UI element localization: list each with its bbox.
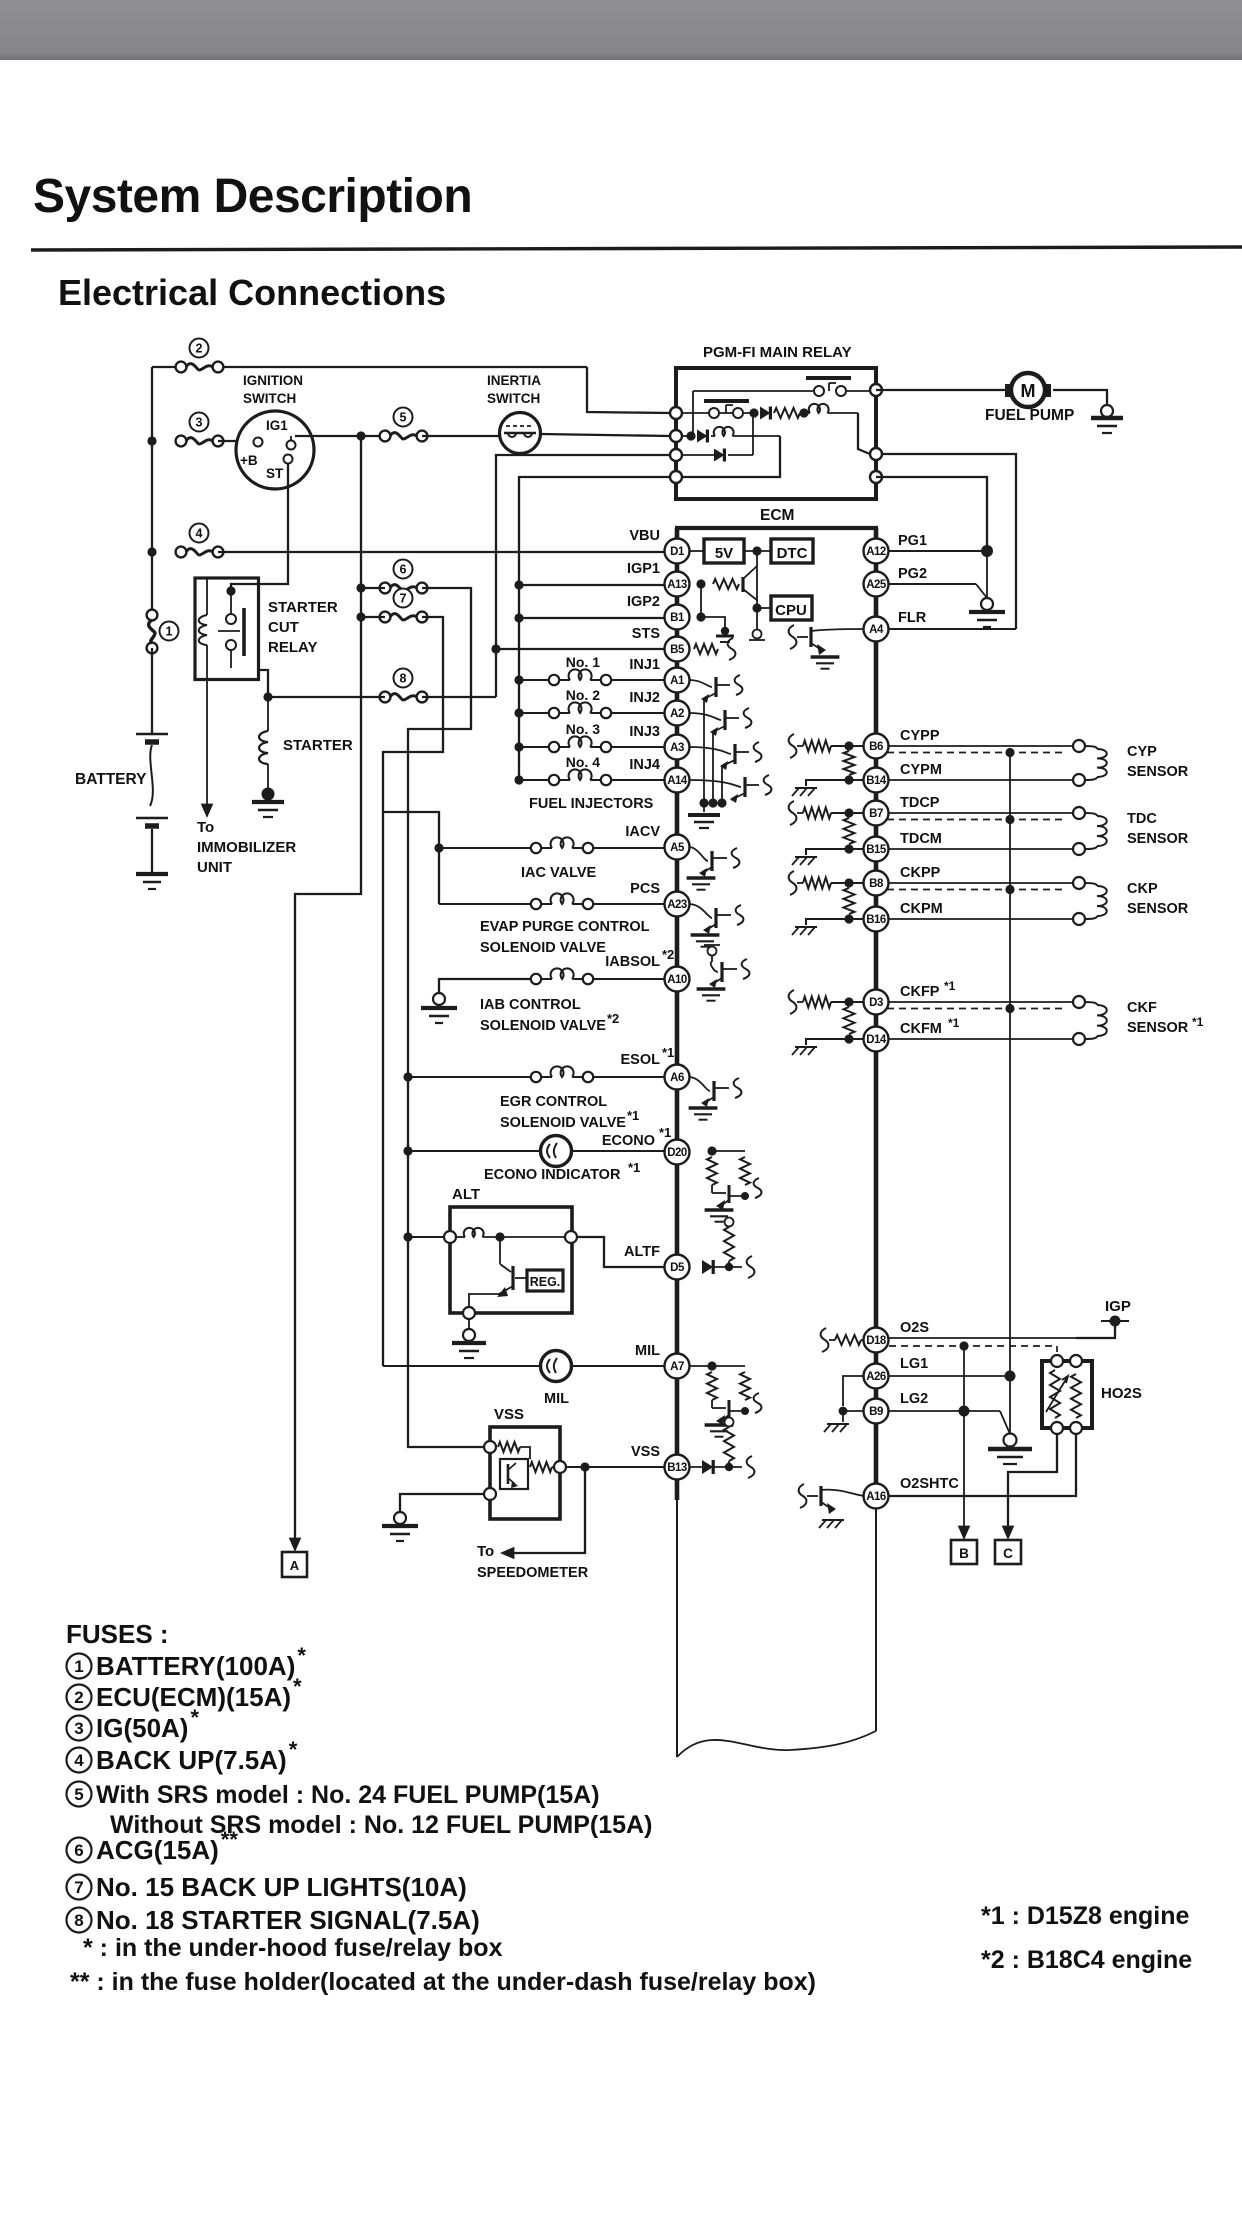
connector C box (995, 1540, 1021, 1564)
arrow to immobilizer (201, 804, 214, 818)
svg-text:SWITCH: SWITCH (243, 391, 296, 406)
svg-text:CKP: CKP (1127, 881, 1158, 897)
starter cut relay coil (206, 578, 208, 615)
relay contact B bar (704, 399, 749, 403)
svg-text:CKFM: CKFM (900, 1021, 942, 1037)
svg-text:A: A (290, 1558, 300, 1573)
svg-text:No. 2: No. 2 (566, 687, 600, 703)
wire row3 up to row1 (752, 413, 754, 455)
resistor A13 (713, 579, 739, 589)
svg-text:D14: D14 (866, 1034, 887, 1046)
wire ST to relay (231, 464, 288, 591)
svg-text:O2S: O2S (900, 1320, 929, 1336)
svg-text:B6: B6 (869, 741, 883, 753)
HO2S heater resistor (1050, 1370, 1060, 1418)
svg-text:ST: ST (266, 466, 284, 481)
node LG2 (959, 1406, 970, 1417)
wire VSS ground lead (400, 1494, 484, 1512)
svg-text:VSS: VSS (631, 1444, 660, 1460)
starter cut relay box (195, 578, 259, 680)
HO2S pin br (1070, 1422, 1082, 1434)
svg-text:**: ** (221, 1827, 239, 1852)
transistor FLR driver (789, 625, 797, 649)
ECM pin B1 (665, 605, 690, 630)
svg-text:LG1: LG1 (900, 1356, 928, 1372)
svg-text:DTC: DTC (777, 545, 808, 562)
ECM pin B6 (864, 734, 889, 759)
transistor injector driver 2 (689, 713, 721, 720)
node shield CYPP (1005, 748, 1014, 757)
wire battery bus top line y367 (152, 366, 181, 368)
svg-text:A7: A7 (670, 1361, 684, 1373)
fuse F4 (190, 524, 209, 543)
node B1 (696, 612, 705, 621)
svg-text:ACG(15A): ACG(15A) (96, 1835, 219, 1865)
hook CKFP (789, 990, 797, 1014)
svg-text:C: C (1003, 1546, 1013, 1561)
inertia switch (500, 413, 541, 454)
wire HO2S bl to C (1008, 1434, 1057, 1526)
svg-text:B13: B13 (667, 1462, 687, 1474)
wire FLR to relay (882, 454, 1016, 629)
svg-text:3: 3 (196, 416, 203, 430)
node PG1 (981, 545, 993, 557)
transistor PCS driver (689, 904, 712, 918)
ECM pin A5 (665, 835, 690, 860)
sensor CKP coil (1073, 877, 1085, 889)
node O2S shield (959, 1341, 968, 1350)
fuse list item 2 (67, 1685, 92, 1710)
svg-text:FUEL INJECTORS: FUEL INJECTORS (529, 796, 654, 812)
resistor CKFP pullup (797, 1001, 803, 1003)
svg-text:A3: A3 (670, 742, 684, 754)
hook D18 (821, 1328, 829, 1352)
wire ALT out to right pin (500, 1236, 569, 1238)
svg-text:A5: A5 (670, 842, 685, 854)
ECONO driver cluster (707, 1146, 716, 1155)
HO2S pin tr (1070, 1355, 1082, 1367)
fuel pump motor (1005, 384, 1013, 397)
svg-text:B8: B8 (869, 878, 884, 890)
ECM pin A2 (665, 701, 690, 726)
svg-text:REG.: REG. (530, 1275, 561, 1289)
svg-text:No. 1: No. 1 (566, 654, 600, 670)
svg-text:A25: A25 (866, 579, 887, 591)
svg-text:1: 1 (74, 1657, 83, 1676)
node CPU rail (752, 603, 761, 612)
svg-text:+B: +B (240, 453, 258, 468)
node injector emitters (699, 798, 708, 807)
resistor D18 (829, 1339, 835, 1341)
svg-text:* : in the under-hood fuse/rel: * : in the under-hood fuse/relay box (83, 1934, 503, 1962)
transistor A16 driver (799, 1484, 807, 1508)
relay diode D3 (714, 449, 724, 462)
svg-text:VBU: VBU (629, 528, 660, 544)
svg-text:ECONO INDICATOR: ECONO INDICATOR (484, 1167, 621, 1183)
resistor STS (694, 644, 718, 654)
EVAP purge coil (439, 903, 531, 905)
ground B1 (721, 627, 729, 635)
node fuse5 junction (356, 431, 365, 440)
ground LG bus (1009, 1376, 1011, 1434)
wire IAB ground lead (439, 979, 531, 993)
fuse list item 3 (67, 1716, 92, 1741)
ECM pin A26 (864, 1364, 889, 1389)
wire fuse7 output (361, 616, 385, 618)
ground fuel pump (1101, 405, 1113, 417)
svg-text:CYPM: CYPM (900, 762, 942, 778)
alternator ALT box (450, 1207, 572, 1313)
svg-text:D1: D1 (670, 546, 685, 558)
svg-text:B1: B1 (670, 612, 685, 624)
wire HO2S br to O2SHTC (889, 1434, 1076, 1496)
svg-text:STARTER: STARTER (283, 737, 353, 754)
ground PG (986, 551, 988, 598)
fuse F2 (190, 339, 209, 358)
wire 5V rail down (756, 551, 758, 630)
ground CKFM hatch (795, 1046, 817, 1048)
wire VSS out (566, 1466, 664, 1468)
wire relay pin3 to STS bus (496, 455, 670, 649)
hook TDCP (789, 801, 797, 825)
svg-text:RELAY: RELAY (268, 639, 317, 656)
wire fuse6 output (361, 587, 385, 589)
node A13 (696, 579, 705, 588)
relay coil A (804, 412, 810, 414)
MIL lamp (383, 1365, 540, 1367)
svg-text:No. 4: No. 4 (566, 754, 600, 770)
wire CKFM to sensor (889, 1038, 1073, 1040)
wire LG1 (889, 1375, 1010, 1377)
svg-text:B16: B16 (866, 914, 886, 926)
resistor CYPP pullup (797, 745, 803, 747)
ground starter (262, 788, 275, 801)
ECM top edge (675, 526, 878, 530)
svg-text:SENSOR: SENSOR (1127, 901, 1189, 917)
fuse F7 (394, 589, 413, 608)
relay pin out fuel pump (870, 384, 882, 396)
IAC valve coil (439, 847, 531, 849)
node fuse6 junction (356, 583, 365, 592)
fuse F6 (394, 560, 413, 579)
wire fuel pump to ground (1053, 390, 1107, 406)
node shield CKFP (1005, 1004, 1014, 1013)
svg-text:STARTER: STARTER (268, 599, 338, 616)
svg-text:FUEL PUMP: FUEL PUMP (985, 407, 1074, 424)
node relay coilA (799, 408, 808, 417)
svg-text:TDCM: TDCM (900, 831, 942, 847)
wire LG2 (889, 1410, 964, 1412)
wire fuse3 to ignition +B (218, 440, 237, 442)
wire rail to CPU (757, 607, 771, 609)
svg-text:*2: *2 (607, 1011, 619, 1026)
fuse list item 6 (67, 1838, 92, 1863)
svg-text:A1: A1 (670, 675, 685, 687)
wire relay output to starter (258, 670, 268, 697)
wire ALTF (577, 1237, 664, 1267)
svg-text:IMMOBILIZER: IMMOBILIZER (197, 839, 296, 856)
wire STS bus to fuse8 (495, 649, 497, 697)
svg-text:7: 7 (400, 592, 407, 606)
ground CKPM hatch (795, 926, 817, 928)
wire D1 to 5V (689, 550, 704, 552)
ground VSS (394, 1512, 406, 1524)
starter coil (267, 697, 269, 731)
ALT field coil (456, 1236, 465, 1238)
wire relay unit A (693, 390, 814, 392)
node ESOL (403, 1072, 412, 1081)
DTC box (771, 539, 813, 563)
relay diode D2 (697, 430, 707, 443)
node CKPM (844, 914, 853, 923)
wire TDCP to sensor (889, 812, 1073, 814)
ALT bottom pin (463, 1307, 475, 1319)
svg-text:5V: 5V (715, 545, 733, 562)
wire relay to fuel pump (876, 389, 1010, 391)
ECM pin A13 (665, 572, 690, 597)
wire CKPP shield dashed (887, 889, 1063, 891)
svg-text:*2 : B18C4 engine: *2 : B18C4 engine (981, 1946, 1192, 1974)
wire IG1 out (295, 435, 385, 437)
wire starter signal line (268, 696, 385, 698)
ECM bottom break (677, 1731, 876, 1757)
hook STS (728, 638, 736, 660)
svg-text:IACV: IACV (625, 824, 660, 840)
wire relay PG feed (876, 477, 987, 546)
wire FLR (889, 628, 1016, 630)
ALT right pin (565, 1231, 577, 1243)
node TDCP (844, 808, 853, 817)
wire IGP2 line (519, 617, 664, 619)
ground IAB (433, 993, 445, 1005)
diode ALTF (702, 1260, 713, 1274)
svg-text:INJ4: INJ4 (629, 757, 660, 773)
fuse list item 7 (67, 1875, 92, 1900)
ECM right edge (874, 528, 879, 1500)
fuse F3 (190, 413, 209, 432)
svg-text:A6: A6 (670, 1072, 684, 1084)
transistor IABSOL driver (708, 947, 717, 956)
ECM pin D18 (864, 1328, 889, 1353)
ECM pin A7 (665, 1354, 690, 1379)
svg-text:INJ2: INJ2 (629, 690, 660, 706)
node ALT coil out (495, 1232, 504, 1241)
transistor VSS hall (507, 1464, 510, 1484)
svg-text:MIL: MIL (544, 1391, 569, 1407)
svg-text:A10: A10 (667, 974, 687, 986)
svg-text:IGNITION: IGNITION (243, 373, 303, 388)
VSS inner box (500, 1459, 528, 1489)
injector No.3 coil (519, 746, 549, 748)
hook CKPP (789, 871, 797, 895)
resistor CKPP pullup (797, 882, 803, 884)
svg-text:UNIT: UNIT (197, 859, 232, 876)
svg-text:BATTERY(100A): BATTERY(100A) (96, 1651, 295, 1681)
svg-text:PG1: PG1 (898, 533, 927, 549)
svg-text:ALT: ALT (452, 1186, 480, 1203)
connector B box (951, 1540, 977, 1564)
REG box (527, 1270, 563, 1291)
resistor CKPP-CKPM (844, 888, 855, 914)
CPU box (771, 596, 812, 620)
ECM pin A14 (665, 768, 690, 793)
ECM pin A12 (864, 539, 889, 564)
node CYPP (844, 741, 853, 750)
HO2S box (1042, 1361, 1092, 1428)
ECM pin A25 (864, 572, 889, 597)
node fuse3 junction (147, 436, 156, 445)
svg-text:CPU: CPU (775, 602, 807, 619)
svg-text:*1: *1 (662, 1045, 674, 1060)
wire relay pin4 to IGP bus (519, 477, 670, 780)
svg-text:HO2S: HO2S (1101, 1385, 1142, 1402)
wire bus to battery (151, 648, 153, 734)
transistor Q1 (741, 577, 744, 592)
wire coilA to FLR pin (858, 413, 870, 454)
node shield CKPP (1005, 885, 1014, 894)
regulator 5V box (704, 539, 744, 563)
rail bottom contact (753, 630, 762, 639)
svg-text:CKF: CKF (1127, 1000, 1157, 1016)
wire relay row1 (682, 412, 709, 414)
ECM pin A23 (665, 892, 690, 917)
fuse F5 (394, 408, 413, 427)
relay contact B (709, 408, 719, 418)
svg-text:M: M (1021, 381, 1036, 401)
fuse list item 5 (67, 1782, 92, 1807)
svg-text:ALTF: ALTF (624, 1244, 660, 1260)
node speedometer tap (580, 1462, 589, 1471)
ECM pin B5 (665, 637, 690, 662)
wire PG2 (889, 583, 976, 585)
ignition switch (236, 411, 314, 489)
VSS resistor right (530, 1462, 552, 1472)
VSS resistor top (498, 1442, 520, 1452)
ECM pin B14 (864, 768, 889, 793)
svg-text:ECM: ECM (760, 507, 794, 524)
svg-text:CYPP: CYPP (900, 728, 940, 744)
relay contact A (814, 386, 824, 396)
ground ALT (468, 1319, 470, 1329)
node fuse7 junction (356, 612, 365, 621)
injector No.2 coil (519, 712, 549, 714)
node CKPP (844, 878, 853, 887)
wire ACC bus x361 (295, 436, 361, 1538)
svg-text:A2: A2 (670, 708, 684, 720)
wire to speedometer (512, 1467, 585, 1553)
svg-text:No. 3: No. 3 (566, 721, 600, 737)
svg-text:*1: *1 (627, 1108, 639, 1123)
svg-text:TDC: TDC (1127, 811, 1157, 827)
svg-text:A12: A12 (866, 546, 886, 558)
svg-text:CKPM: CKPM (900, 901, 943, 917)
svg-text:EGR CONTROL: EGR CONTROL (500, 1094, 607, 1110)
svg-text:FUSES :: FUSES : (66, 1619, 169, 1649)
svg-text:A13: A13 (667, 579, 687, 591)
svg-text:SOLENOID VALVE: SOLENOID VALVE (480, 1018, 606, 1034)
VSS bottom pin (484, 1488, 496, 1500)
ECM internal LG grounds (843, 1376, 864, 1406)
svg-text:1: 1 (166, 625, 173, 639)
svg-text:5: 5 (400, 411, 407, 425)
wire TDCP shield dashed (887, 819, 1063, 821)
svg-text:*1 : D15Z8 engine: *1 : D15Z8 engine (981, 1902, 1189, 1930)
svg-text:D20: D20 (667, 1147, 687, 1159)
svg-text:D3: D3 (869, 997, 883, 1009)
fuse F8 (394, 669, 413, 688)
svg-text:B9: B9 (869, 1406, 883, 1418)
svg-text:A26: A26 (866, 1371, 886, 1383)
transistor injector driver 4 (689, 780, 741, 787)
svg-text:*2: *2 (662, 947, 674, 962)
svg-text:B5: B5 (670, 644, 685, 656)
svg-text:A14: A14 (667, 775, 688, 787)
svg-text:CKPP: CKPP (900, 865, 941, 881)
ground TDCM hatch (795, 856, 817, 858)
node relay row2 (686, 431, 695, 440)
relay contact A bar (806, 376, 851, 380)
svg-text:No. 18 STARTER SIGNAL(7.5A): No. 18 STARTER SIGNAL(7.5A) (96, 1905, 480, 1935)
starter cut relay contacts (230, 591, 232, 614)
svg-text:*: * (191, 1705, 200, 1730)
relay coil B (711, 435, 715, 437)
svg-text:SPEEDOMETER: SPEEDOMETER (477, 1565, 589, 1581)
svg-text:B15: B15 (866, 844, 887, 856)
relay pin in1 (670, 407, 682, 419)
node IACV (434, 843, 443, 852)
svg-text:BACK UP(7.5A): BACK UP(7.5A) (96, 1745, 287, 1775)
ground battery (136, 872, 168, 876)
svg-text:PG2: PG2 (898, 566, 927, 582)
HO2S pin bl (1051, 1422, 1063, 1434)
svg-text:4: 4 (74, 1751, 84, 1770)
VSS right pin (554, 1461, 566, 1473)
svg-text:D18: D18 (866, 1335, 887, 1347)
svg-text:EVAP PURGE CONTROL: EVAP PURGE CONTROL (480, 919, 650, 935)
wire STS line (496, 648, 664, 650)
svg-text:ECONO: ECONO (602, 1133, 655, 1149)
ECM pin B15 (864, 837, 889, 862)
svg-text:A16: A16 (866, 1491, 886, 1503)
transistor injector driver 1 (689, 680, 712, 687)
svg-text:8: 8 (400, 672, 407, 686)
svg-text:CKFP: CKFP (900, 984, 940, 1000)
sensor TDC coil (1073, 807, 1085, 819)
node starter junction (263, 692, 272, 701)
node fuse4 junction (147, 547, 156, 556)
wire relay row2 (682, 435, 691, 437)
injector No.1 coil (519, 679, 549, 681)
wire IGP1 line (519, 584, 664, 586)
svg-text:INERTIA: INERTIA (487, 373, 541, 388)
title rule (31, 247, 1242, 250)
svg-text:FLR: FLR (898, 610, 927, 626)
svg-text:SENSOR: SENSOR (1127, 831, 1189, 847)
svg-text:IABSOL: IABSOL (605, 954, 660, 970)
node CYPM (844, 775, 853, 784)
wire CKFP to sensor (889, 1001, 1073, 1003)
svg-text:ESOL: ESOL (621, 1052, 661, 1068)
wire ALT feed (408, 1236, 450, 1238)
wire CKPP to sensor (889, 882, 1073, 884)
transistor IACV driver (689, 847, 708, 861)
svg-text:*: * (293, 1674, 302, 1699)
wire O2S (889, 1337, 1115, 1339)
svg-text:To: To (197, 819, 214, 836)
fuse list item 8 (67, 1908, 92, 1933)
svg-text:8: 8 (74, 1911, 83, 1930)
wire TDCM to sensor (889, 848, 1073, 850)
